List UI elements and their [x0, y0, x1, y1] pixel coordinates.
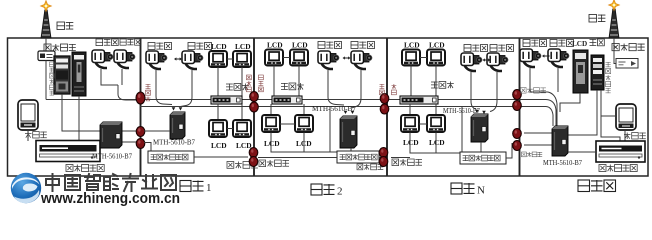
- wire trunk into MTH cab: [546, 100, 556, 127]
- divider wall head/car1: [140, 38, 142, 176]
- wire carN splitter to lcdc: [409, 104, 411, 115]
- wire coupler to MTH car1: [144, 130, 170, 132]
- LCD carN-top-b: [427, 50, 445, 66]
- server tower 1: [54, 56, 70, 94]
- wire car1 lcd-a down: [217, 67, 219, 96]
- watermark logo globe: [11, 173, 41, 203]
- svg-text:LCD: LCD: [267, 41, 283, 50]
- wire car1 botlcd link: [227, 128, 233, 130]
- label wangluo-jiekou car2-left: [259, 160, 289, 167]
- wire car1 lcd-b down: [241, 67, 243, 96]
- camera car2-b: [351, 51, 372, 69]
- wire modem down to trunk: [45, 61, 47, 100]
- wire carN splitter to lcdd: [435, 104, 437, 115]
- svg-text:LCD: LCD: [292, 41, 308, 50]
- coupler head/car1 upper: [136, 92, 145, 104]
- label wangluo-jiekou cab-low: [522, 152, 543, 157]
- monitor handset cab: [616, 104, 636, 130]
- wire towerB down: [568, 90, 597, 135]
- wire tower1 to coupler: [62, 94, 136, 131]
- LCD carN-bot-b: [427, 115, 445, 132]
- LCD car1-top-a: [209, 51, 227, 67]
- LCD car2-bot-a: [262, 115, 280, 132]
- camera head-b: [114, 50, 135, 68]
- watermark title zhongguo-zhineng-chanye-wang: [46, 174, 176, 191]
- label vertical net carNside-l: [392, 84, 397, 95]
- coupler carN/cab lower: [513, 129, 522, 151]
- svg-text:2: 2: [337, 186, 343, 198]
- LCD car1-top-b: [233, 51, 251, 67]
- svg-text:LCD: LCD: [236, 141, 252, 150]
- svg-text:MTH-5610-B7: MTH-5610-B7: [92, 153, 132, 161]
- coupler car1/car2 lower: [249, 148, 258, 167]
- LCD carN-bot-a: [401, 115, 419, 132]
- arrowhead car1 mth-a: [172, 107, 176, 110]
- label shexiangtou car1-b: [188, 43, 212, 50]
- LCD car1-bot-a: [209, 120, 227, 137]
- label shexiangtou cab-a: [523, 40, 547, 47]
- wire car2 cam-a to MTH: [328, 70, 344, 105]
- wire modem cab link: [614, 58, 616, 64]
- wire cab cam-b down: [557, 68, 559, 92]
- wire car2 cam-b to MTH: [352, 70, 362, 108]
- label vertical net car2side: [259, 75, 264, 92]
- camera cab-a: [520, 49, 541, 67]
- camera car1-b: [182, 51, 203, 69]
- splitter carN: [400, 96, 438, 104]
- wire carN trunkdrop: [461, 107, 463, 153]
- label vertical net head/car1: [146, 84, 151, 102]
- svg-text:LCD: LCD: [235, 42, 251, 51]
- wire carN lcd link: [420, 57, 427, 59]
- svg-text:LCD: LCD: [403, 138, 419, 147]
- camera carN-a: [461, 53, 482, 71]
- wire car2 lcd-a down: [273, 66, 275, 97]
- monitor handset head: [18, 100, 38, 130]
- wireless modem cab: [616, 59, 638, 69]
- wire cab cam-a down: [530, 68, 548, 92]
- label shipin-fuwuqi cab: [599, 165, 637, 172]
- wire storage car1 to coupler1: [194, 156, 248, 158]
- camera car2-a: [318, 51, 339, 69]
- camera cab-b: [548, 49, 569, 67]
- wire towerA down: [560, 93, 580, 112]
- wire car1 lcd link: [227, 58, 233, 60]
- wire car2 splitter to lcdc: [270, 104, 272, 115]
- wireless modem left: [38, 51, 55, 61]
- label wangluo-jiekou cab-top: [521, 88, 546, 94]
- arrow between cams car1: [174, 57, 182, 60]
- LCD car1-bot-b: [233, 120, 251, 137]
- label shexiangtou head-a: [96, 39, 118, 46]
- wire carN botlcd link: [419, 123, 427, 125]
- arrow between cams carN: [483, 58, 491, 61]
- camera carN-b: [487, 53, 508, 71]
- label shexiangtou car1-a: [148, 43, 172, 50]
- svg-text:LCD: LCD: [429, 41, 445, 50]
- wire coupler1 to car2 rail: [258, 157, 337, 159]
- storage label box car1: [148, 151, 194, 163]
- divider wall carN/cab: [519, 38, 521, 176]
- MTH encoder cab: [552, 126, 568, 156]
- arrowhead car2 mth-a: [344, 111, 348, 114]
- label che-xiang2: [311, 184, 343, 198]
- wire cab bundle curve: [548, 92, 557, 126]
- label LCD-xianshiqi cab: [572, 39, 604, 48]
- wire car2 botlcd-b join: [303, 133, 305, 153]
- label vertical net car1side: [247, 75, 252, 92]
- wire carN botlcd-b join: [435, 133, 437, 154]
- svg-text:MTH-5610-B7: MTH-5610-B7: [312, 106, 357, 113]
- svg-text:LCD: LCD: [211, 141, 227, 150]
- svg-text:LCD: LCD: [572, 40, 587, 48]
- wire antenna-left feed: [45, 38, 47, 53]
- label wangluo-jiekou carN-left: [392, 159, 422, 166]
- label tianxian left: [57, 22, 73, 30]
- tower A cab: [573, 50, 588, 93]
- label shexiangtou head-b: [120, 39, 141, 45]
- wire car2 trunkdrop: [329, 107, 331, 152]
- label che-xiangN: [451, 183, 485, 197]
- svg-text:www.zhineng.com.cn: www.zhineng.com.cn: [40, 191, 180, 207]
- label fenpingqi car1: [226, 84, 249, 91]
- wire coupler to storage car1: [144, 143, 151, 152]
- arrowhead carN mth-a: [475, 110, 479, 113]
- wire car1 cam-a to MTH: [156, 70, 172, 105]
- divider wall car2/carN: [386, 38, 388, 176]
- svg-text:LCD: LCD: [404, 41, 420, 50]
- wire coupler2 to carN rail: [391, 157, 410, 159]
- label shexiangtou car2-a: [318, 42, 342, 49]
- wire car1 cam-b to MTH: [181, 70, 193, 107]
- MTH encoder carN: [471, 114, 488, 142]
- label tianxian-wangluo: [44, 44, 76, 51]
- label wuxian-wangluo cab: [612, 44, 645, 51]
- svg-text:LCD: LCD: [264, 139, 280, 148]
- storage label box carN: [460, 152, 506, 164]
- label wangluo-jiekou car1: [227, 162, 258, 169]
- wire car1 splitter to lcdd: [241, 104, 243, 120]
- wire antenna-right feed: [613, 38, 615, 58]
- coupler car2/carN lower: [379, 148, 388, 167]
- wire car2 mth to storage: [350, 148, 352, 151]
- video server cab: [596, 141, 645, 162]
- wire car1 splitter to lcdc: [217, 104, 219, 120]
- svg-text:MTH-5610-B7: MTH-5610-B7: [153, 140, 196, 147]
- camera head-a: [92, 50, 113, 68]
- arrow between cams car2: [343, 56, 351, 59]
- label jianshiqi head: [25, 132, 47, 139]
- svg-text:MTH-5610-B7: MTH-5610-B7: [543, 159, 582, 167]
- tower B cab: [591, 55, 604, 90]
- svg-text:LCD: LCD: [211, 42, 227, 51]
- label wangluo-jiekou car2-right: [357, 164, 383, 170]
- wire towerB to server: [601, 90, 620, 141]
- label siji-shi: [578, 180, 616, 192]
- label fenpingqi car2: [281, 83, 304, 90]
- wire carN cam-b to MTH: [490, 72, 497, 112]
- wire car2 lcd-b down: [298, 66, 300, 97]
- label jianshiqi cab: [624, 133, 646, 140]
- wire monitor cab left: [601, 115, 616, 117]
- wire carN cam-a to MTH: [471, 72, 476, 109]
- wire carN mth to storage: [480, 142, 482, 152]
- arrowhead car1 mth-b: [179, 107, 183, 110]
- LCD car2-bot-b: [295, 115, 313, 132]
- coupler car2/carN upper: [380, 94, 389, 115]
- arrowhead carN mth-b: [482, 111, 486, 114]
- server tower 2: [72, 52, 86, 96]
- svg-text:N: N: [477, 185, 485, 197]
- wire carN botlcd rail: [410, 133, 460, 154]
- svg-text:1: 1: [206, 182, 212, 194]
- storage label box car2: [337, 151, 379, 163]
- MTH encoder car1: [170, 112, 185, 139]
- LCD carN-top-a: [402, 50, 420, 66]
- label shexiangtou carN-b: [490, 45, 514, 52]
- label shexiangtou cab-b: [550, 40, 574, 47]
- coupler carN/cab upper: [513, 90, 522, 111]
- arrow between cams cab: [542, 54, 550, 57]
- wire car2 lcd link: [283, 57, 290, 59]
- wire car2 splitter to lcdd: [303, 104, 305, 115]
- MTH encoder head: [100, 122, 122, 148]
- wire monitor down: [27, 130, 29, 141]
- wire head cams to coupler: [101, 69, 136, 100]
- label tianxian right: [589, 15, 605, 23]
- coupler head/car1 lower: [136, 127, 145, 149]
- label che-xiang1: [180, 181, 212, 195]
- LCD car2-top-b: [290, 50, 308, 66]
- wire network trunk upper: [46, 99, 546, 101]
- label vertical net car2side-r: [380, 84, 385, 95]
- wire network trunk lower: [140, 106, 546, 108]
- wire car2 botlcd link: [280, 123, 295, 125]
- wire coupler3 to MTH cab a: [524, 132, 552, 134]
- camera car1-a: [146, 51, 167, 69]
- arrowhead car2 mth-b: [351, 111, 355, 114]
- video server head: [36, 141, 100, 162]
- splitter car1: [211, 96, 242, 104]
- wire carN lcd-b down: [435, 66, 437, 97]
- label shipin-fuwuqi head: [66, 165, 104, 172]
- wire carN lcd-a down: [410, 66, 412, 97]
- wire car2 storage to coupler2: [379, 157, 382, 159]
- label shexiangtou car2-b: [351, 42, 375, 49]
- label fenpingqi carN: [431, 82, 454, 89]
- MTH encoder car2: [340, 116, 357, 148]
- coupler car1/car2 upper: [250, 92, 259, 113]
- antenna left: [41, 1, 51, 38]
- LCD car2-top-a: [265, 50, 283, 66]
- wire MTH to server cab: [568, 151, 596, 153]
- divider wall car1/car2: [253, 38, 255, 176]
- wire car2 botlcd-a to storage rail: [271, 133, 337, 153]
- wire carN storage to coupler3: [506, 143, 512, 158]
- wire monitor cab down: [624, 130, 626, 141]
- antenna right: [609, 0, 619, 38]
- label shexiangtou carN-a: [464, 45, 488, 52]
- label vertical cab controller: [606, 62, 611, 93]
- splitter car2: [272, 96, 302, 104]
- train body outline: [8, 38, 649, 176]
- wire tower2 to coupler: [79, 96, 136, 142]
- svg-text:LCD: LCD: [429, 138, 445, 147]
- wire coupler3 to MTH cab b: [524, 144, 552, 146]
- label vertical chezai-jiaohuanji: [50, 62, 55, 95]
